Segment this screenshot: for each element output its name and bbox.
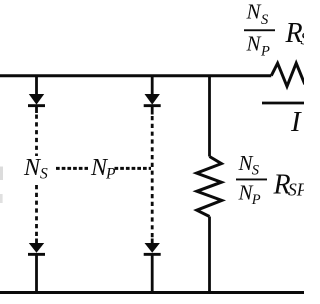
diode D1 (top left)	[29, 94, 44, 105]
diode D2 (top right)	[145, 94, 160, 105]
wire left-string solid stub below D1	[35, 106, 38, 113]
svg-text:N: N	[246, 31, 262, 55]
svg-text:N: N	[246, 0, 262, 24]
svg-text:P: P	[105, 166, 116, 183]
wire left-string dashed segment lower	[35, 185, 38, 239]
resistor Rs (series, N_S/N_P·R_S)	[271, 63, 305, 86]
wire right-string bottom stub	[151, 255, 154, 293]
node cropped glyph artifact upper left edge	[0, 167, 3, 181]
diode D4 (bottom right)	[145, 243, 160, 253]
wire left-string solid stub above D3	[35, 239, 38, 244]
wire left-string top stub	[35, 75, 38, 95]
svg-text:S: S	[301, 29, 305, 49]
svg-text:SP: SP	[288, 180, 304, 200]
node output current arrow I	[262, 102, 304, 105]
wire right-string solid stub above D4	[151, 239, 154, 244]
wire top bus	[0, 74, 271, 77]
svg-text:P: P	[251, 192, 261, 208]
wire left-string dashed segment upper	[35, 115, 38, 157]
wire right-string dashed segment	[151, 116, 154, 239]
wire left-string bottom stub	[35, 255, 38, 293]
wire dashed link N_P to right string	[115, 167, 152, 170]
wire right-string top stub	[151, 75, 154, 95]
svg-text:S: S	[40, 166, 48, 183]
resistor Rsp (shunt, N_S/N_P·R_SP)	[197, 157, 222, 217]
svg-text:I: I	[290, 106, 302, 138]
wire dashed link N_S to N_P (left part)	[56, 167, 88, 170]
wire shunt branch bottom stub	[208, 217, 211, 293]
diode D3 (bottom left)	[29, 243, 44, 253]
svg-text:P: P	[260, 43, 270, 59]
wire shunt branch top stub	[208, 75, 211, 157]
svg-text:S: S	[252, 162, 260, 178]
wire bottom bus	[0, 291, 304, 294]
svg-text:S: S	[261, 12, 269, 28]
node cropped glyph artifact lower left edge	[0, 194, 3, 203]
wire right-string solid stub below D2	[151, 106, 154, 115]
